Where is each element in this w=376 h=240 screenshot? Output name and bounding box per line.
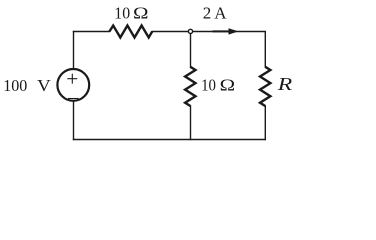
- svg-text:Ω: Ω: [220, 76, 236, 95]
- svg-text:V: V: [37, 76, 51, 95]
- svg-text:10: 10: [114, 4, 130, 23]
- svg-text:A: A: [214, 4, 227, 23]
- svg-text:R: R: [277, 75, 293, 94]
- svg-text:Ω: Ω: [133, 4, 149, 23]
- svg-text:100: 100: [3, 76, 27, 95]
- svg-text:2: 2: [203, 4, 212, 23]
- svg-text:10: 10: [201, 76, 216, 95]
